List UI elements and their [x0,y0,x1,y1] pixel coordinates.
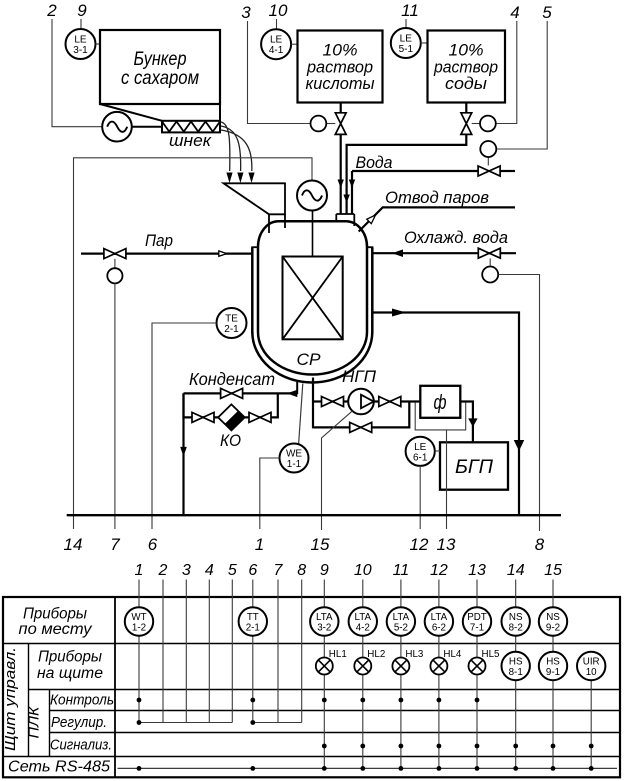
svg-text:LTA: LTA [355,612,372,623]
svg-text:13: 13 [437,535,456,554]
svg-text:Сигнализ.: Сигнализ. [50,738,112,754]
svg-text:9: 9 [320,562,329,579]
svg-text:1: 1 [135,562,144,579]
svg-text:LE: LE [414,442,427,453]
PDT 7-1 pressure taps (wire 13) [415,403,466,430]
reactor jacket outer wall right [371,247,374,333]
svg-text:СР: СР [297,350,322,369]
svg-text:соды: соды [445,75,487,93]
svg-text:HS: HS [546,657,560,668]
junction dots Контроль row [137,698,142,703]
wire column 2 [162,580,164,723]
steam line valve [104,249,126,259]
svg-text:14: 14 [64,535,83,554]
wire 10 to LE 4-1 [276,19,278,30]
junction dots RS-485 row [137,766,142,771]
instrument LTA 3-2 [310,607,338,635]
svg-text:Приборы: Приборы [38,649,103,666]
svg-text:HL2: HL2 [367,649,385,660]
wire motor to auger trough [132,126,162,128]
svg-text:5: 5 [228,562,237,579]
svg-text:LTA: LTA [316,612,333,623]
svg-text:6-1: 6-1 [413,452,428,463]
funnel neck [269,214,285,233]
svg-text:КО: КО [220,431,241,450]
svg-text:раствор: раствор [433,59,498,77]
svg-text:Бункер: Бункер [134,49,187,70]
wire column 8 [301,580,303,723]
lamp HL5 [469,658,486,675]
svg-text:5-2: 5-2 [394,623,408,634]
instrument LTA 6-2 [425,607,453,635]
sugar feed curve 1 [221,122,230,171]
svg-text:Конденсат: Конденсат [189,369,275,389]
svg-text:НГП: НГП [342,367,377,386]
vapor outlet line [359,207,515,231]
wire column 4 [208,580,210,723]
tank БГП [440,442,508,489]
wire column 1 [138,580,140,723]
svg-text:HS: HS [509,657,523,668]
wire column 13 [476,580,478,769]
weight element WE 1-1 [299,384,303,445]
hand switch HS 8-1 [502,652,530,680]
wire 8 cooling actuator to bus [498,275,539,532]
wire LE 3-1 to bunker [96,43,101,45]
svg-text:БГП: БГП [455,457,493,478]
wire column 9 [323,580,325,769]
svg-text:15: 15 [311,535,330,554]
wire column 12 [438,580,440,769]
soda feed pipe [347,135,467,215]
wire column 6 [252,580,254,723]
svg-text:LTA: LTA [393,612,410,623]
svg-text:LTA: LTA [431,612,448,623]
svg-text:3: 3 [182,562,191,579]
svg-text:HL1: HL1 [329,649,347,660]
svg-text:HL4: HL4 [443,649,462,660]
soda tank (10% раствор соды) [428,31,506,103]
svg-text:NS: NS [509,612,523,623]
junction dots Сигнализ row [322,744,327,749]
svg-text:9: 9 [77,1,87,20]
svg-text:7-1: 7-1 [470,623,484,634]
svg-text:4-2: 4-2 [356,623,370,634]
svg-text:10: 10 [269,1,288,20]
vapor open arrow [367,215,376,224]
pump suction line [313,400,421,402]
svg-text:4: 4 [510,3,519,22]
svg-text:TE: TE [225,314,238,325]
svg-text:1: 1 [255,535,264,554]
svg-text:10: 10 [586,667,597,678]
pump НГП [348,389,374,415]
recorder UIR 10 [577,652,605,680]
svg-text:шнек: шнек [169,131,212,150]
svg-text:1-1: 1-1 [287,459,302,470]
wire column 10 [362,580,364,769]
wire column 11 [400,580,402,769]
cooling water valve [478,248,500,258]
svg-text:6: 6 [248,562,257,579]
svg-text:6: 6 [148,535,158,554]
level transmitter LE 3-1 [66,29,96,59]
svg-text:3-1: 3-1 [73,45,88,56]
instrument LTA 5-2 [387,607,415,635]
check valve KO [218,404,245,430]
svg-text:HL3: HL3 [405,649,424,660]
reactor bottom outlet pipe [296,382,298,394]
pump suction valve [322,397,344,407]
svg-text:10%: 10% [449,42,484,60]
svg-text:7: 7 [274,562,284,579]
soda valve actuator circle [472,123,480,125]
cooling water line [373,252,516,254]
wire LE 6-1 to БГП [435,450,440,452]
svg-text:ПЛК: ПЛК [26,705,43,738]
pump bypass loop [313,402,409,428]
auger motor M1 [102,112,132,142]
reactor inner vessel [258,221,367,374]
bunker tank (Бункер с сахаром) [100,30,220,104]
condensate top valve [221,388,243,398]
svg-text:LE: LE [270,35,283,46]
wire 14 agitator motor to bus [74,158,313,529]
bypass right valve [249,412,271,422]
wire 12 LE 6-1 to bus [419,466,421,529]
svg-text:3-2: 3-2 [317,623,331,634]
wire LE 5-1 to soda tank [421,42,428,44]
svg-text:10%: 10% [323,42,358,60]
instrument TT 2-1 [239,607,267,635]
svg-text:Регулир.: Регулир. [51,715,107,731]
wire 13 PDT to bus [446,430,448,529]
lamp HL2 [354,658,371,675]
agitator shaft [312,211,314,298]
wire 6 TE 2-1 to bus [152,323,217,529]
steam open arrow [219,251,227,256]
acid tank (10% раствор кислоты) [298,31,383,103]
svg-text:4-1: 4-1 [269,45,284,56]
steam valve actuator circle [114,259,116,269]
instrument WT 1-2 [125,607,153,635]
lamp HL1 [316,658,333,675]
svg-text:15: 15 [544,562,562,579]
acid feed pipe [340,135,342,215]
wire column 7 [277,580,279,723]
agitator crossed box [283,257,343,340]
wire column 15 [552,580,554,769]
agitator motor M2 [297,181,327,211]
instrument NS 8-2 [502,607,530,635]
condensate bypass loop [184,393,278,417]
filter box Ф [420,386,460,418]
svg-text:11: 11 [401,1,419,20]
wire column UIR [590,680,592,768]
condensate top line [184,392,297,394]
svg-text:8-2: 8-2 [509,623,523,634]
jacket top cap right [366,246,373,248]
svg-text:ф: ф [434,392,447,414]
svg-text:11: 11 [393,562,410,579]
svg-text:9-1: 9-1 [546,667,560,678]
level transmitter LE 6-1 [406,437,435,466]
wire 15 pump to bus [322,411,353,530]
water line [352,170,478,172]
svg-text:2-1: 2-1 [246,623,260,634]
reactor jacket outer wall left [251,247,254,333]
svg-text:LE: LE [74,35,87,46]
svg-text:Охлажд. вода: Охлажд. вода [404,228,508,247]
svg-text:NS: NS [546,612,560,623]
wire 11 to LE 5-1 [405,19,407,29]
bunker right wall extension [219,104,221,132]
level transmitter LE 5-1 [391,28,421,58]
svg-text:раствор: раствор [306,59,373,77]
svg-text:8: 8 [297,562,306,579]
temperature element TE 2-1 [217,308,247,338]
feed pipe neck on dome [336,214,354,226]
hand switch HS 9-1 [539,652,567,680]
lamp HL4 [430,658,447,675]
water valve actuator circle [487,157,489,165]
svg-text:6-2: 6-2 [432,623,446,634]
wire 2 to auger motor [52,19,102,127]
svg-text:на щите: на щите [37,665,103,682]
svg-text:2: 2 [46,1,57,20]
svg-text:13: 13 [468,562,486,579]
svg-text:2-1: 2-1 [224,324,239,335]
wire 3 to acid valve actuator [248,21,311,124]
wire LE 4-1 to acid tank [291,43,298,45]
field/panel boundary bus [67,514,561,516]
svg-text:PDT: PDT [467,612,487,623]
svg-text:5: 5 [542,3,552,22]
svg-text:Вода: Вода [356,153,393,172]
svg-text:4: 4 [205,562,214,579]
svg-text:14: 14 [507,562,525,579]
steam line [81,253,251,255]
soda shut-off valve [465,103,467,113]
svg-text:8: 8 [535,535,545,554]
filter outlet line to БГП [460,402,473,443]
product outlet line [373,313,519,515]
svg-text:7: 7 [110,535,120,554]
sugar feed curve 3 [221,130,252,171]
instrument LTA 4-2 [349,607,377,635]
svg-text:WE: WE [286,449,302,460]
svg-text:9-2: 9-2 [546,623,560,634]
wire 1 WE 1-1 to bus [260,458,280,529]
junction dots Регулир row [137,720,142,725]
pump discharge valve [379,397,401,407]
wire 4 to soda valve actuator [496,21,517,124]
svg-text:HL5: HL5 [482,649,501,660]
jacket bottom ellipse [252,332,372,382]
svg-text:1-2: 1-2 [132,623,146,634]
svg-text:кислоты: кислоты [306,75,375,93]
svg-text:UIR: UIR [583,657,600,668]
svg-text:Щит управл.: Щит управл. [2,647,19,751]
lamp HL3 [392,658,409,675]
condensate drain to bus [182,393,184,515]
water line valve [478,166,500,176]
wire 5 to water valve actuator [497,21,548,149]
feed hopper funnel on reactor [224,183,286,214]
svg-text:по месту: по месту [19,621,93,638]
svg-text:12: 12 [430,562,448,579]
wire column 3 [185,580,187,723]
instrument PDT 7-1 [463,607,491,635]
svg-text:TT: TT [247,612,259,623]
RS-485 network line [118,767,618,769]
svg-text:Сеть RS-485: Сеть RS-485 [8,759,110,776]
sugar feed curve 2 [221,126,241,171]
svg-text:2: 2 [158,562,168,579]
svg-text:Отвод паров: Отвод паров [385,188,489,207]
svg-text:Контроль: Контроль [50,693,114,709]
svg-text:12: 12 [410,535,429,554]
cooling valve actuator circle [489,258,491,266]
table frame [3,597,620,777]
svg-text:Пар: Пар [145,231,173,250]
auger trough (шнек) with screw zigzag [162,121,220,133]
svg-text:10: 10 [354,562,372,579]
regulation bus segment 1-5 [139,722,232,724]
svg-text:Приборы: Приборы [23,606,88,623]
jacket top cap left [251,246,259,248]
wire column 5 [231,580,233,723]
water feed pipe [351,171,353,214]
bunker hopper slope [100,104,162,121]
wire 9 to LE 3-1 [80,19,82,29]
product line down arrow [514,440,525,451]
svg-text:WT: WT [131,612,146,623]
svg-text:LE: LE [400,34,413,45]
acid valve actuator circle [326,123,335,125]
bypass valve [350,422,372,432]
svg-text:3: 3 [241,3,251,22]
wire column 14 [515,580,517,769]
svg-text:с сахаром: с сахаром [121,68,199,89]
instrument NS 9-2 [539,607,567,635]
svg-text:5-1: 5-1 [399,44,414,55]
bypass left valve [192,412,214,422]
svg-text:8-1: 8-1 [509,667,523,678]
acid shut-off valve [340,103,342,113]
wire 7 steam actuator to bus [114,283,116,529]
regulation bus segment 6-8 [253,722,302,724]
level transmitter LE 4-1 [261,29,291,59]
